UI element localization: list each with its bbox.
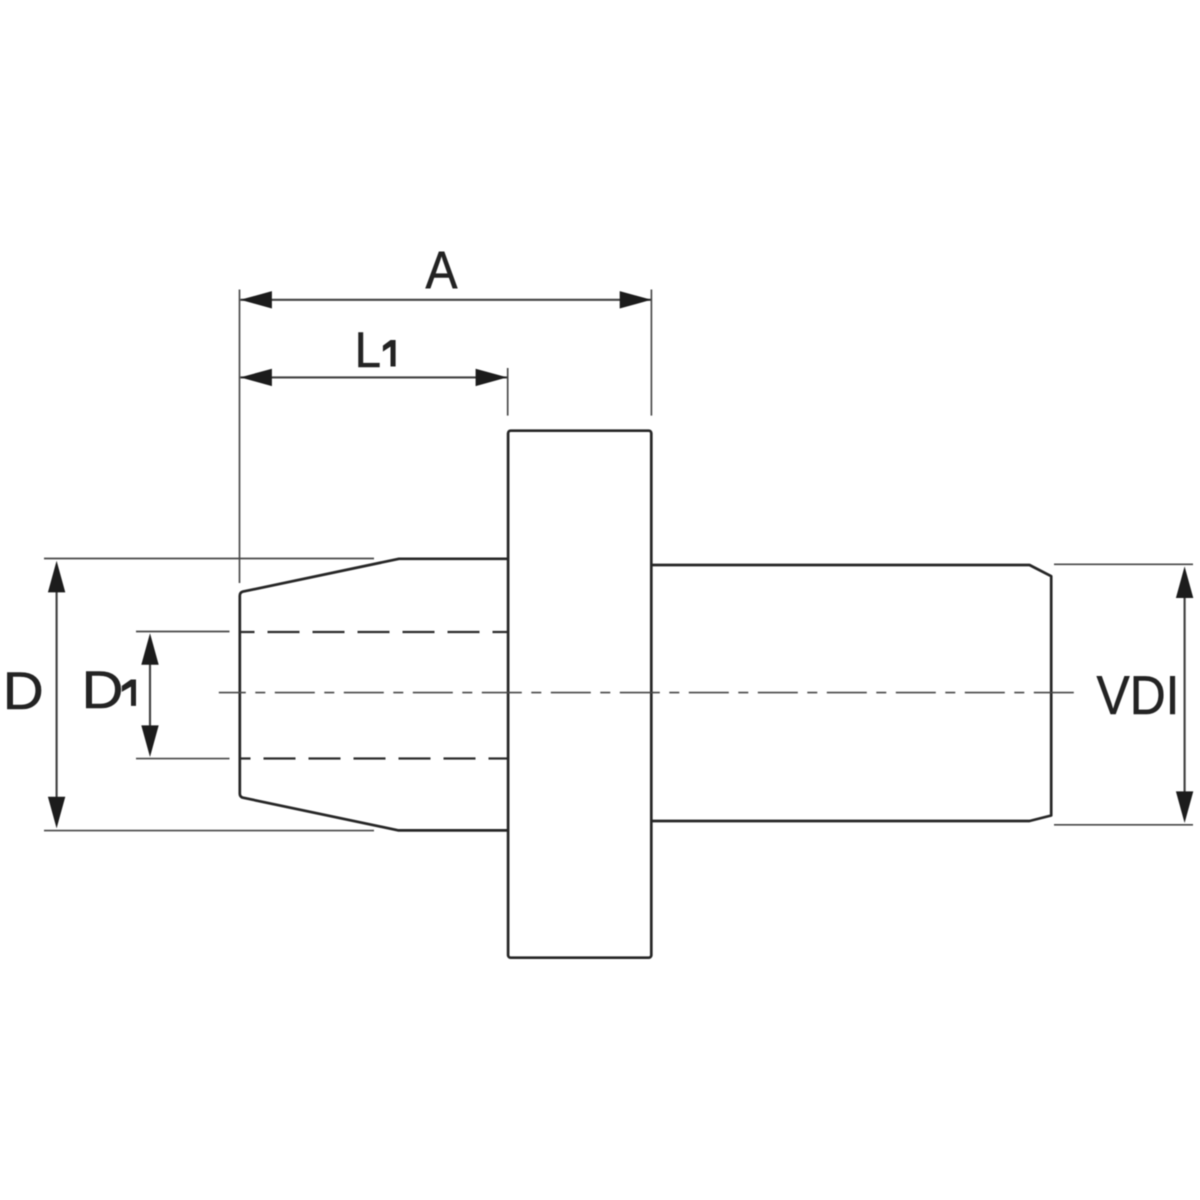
arrow L1 right bbox=[476, 369, 508, 386]
arrow VDI top bbox=[1176, 566, 1193, 598]
arrow D top bbox=[48, 561, 65, 593]
extension line: left datum (A / L1) bbox=[239, 290, 241, 584]
centerline bbox=[219, 692, 1076, 694]
extension line: A right (flange right face) bbox=[650, 290, 652, 416]
extension line: VDI bottom bbox=[1054, 824, 1193, 826]
dimension line D bbox=[56, 589, 58, 800]
flange outline bbox=[508, 431, 651, 958]
shaft outline bbox=[651, 565, 1051, 821]
arrow D1 bottom bbox=[141, 725, 158, 757]
arrow A left bbox=[240, 291, 272, 308]
extension line: D bottom bbox=[44, 830, 374, 832]
hidden bore line lower bbox=[241, 757, 508, 759]
dimension line D1 bbox=[149, 663, 151, 727]
svg-text:L: L bbox=[355, 322, 381, 378]
collet cone outline bbox=[240, 559, 508, 831]
extension line: L1 right (flange left face) bbox=[507, 368, 509, 416]
arrow D1 top bbox=[141, 633, 158, 665]
extension line: D top bbox=[44, 558, 374, 560]
extension line: D1 top bbox=[136, 631, 230, 633]
arrow D bottom bbox=[48, 797, 65, 829]
svg-text:VDI: VDI bbox=[1097, 665, 1180, 726]
arrow VDI bottom bbox=[1176, 791, 1193, 823]
svg-text:A: A bbox=[426, 241, 459, 300]
extension line: D1 bottom bbox=[136, 758, 230, 760]
svg-text:D: D bbox=[3, 662, 44, 721]
hidden bore line upper bbox=[241, 631, 508, 633]
arrow L1 left bbox=[240, 369, 272, 386]
arrow A right bbox=[620, 291, 652, 308]
dimension line A bbox=[240, 299, 651, 301]
svg-text:D: D bbox=[82, 661, 124, 720]
dimension line VDI bbox=[1184, 595, 1186, 795]
extension line: VDI top bbox=[1054, 563, 1193, 565]
dimension line L1 bbox=[240, 376, 507, 378]
